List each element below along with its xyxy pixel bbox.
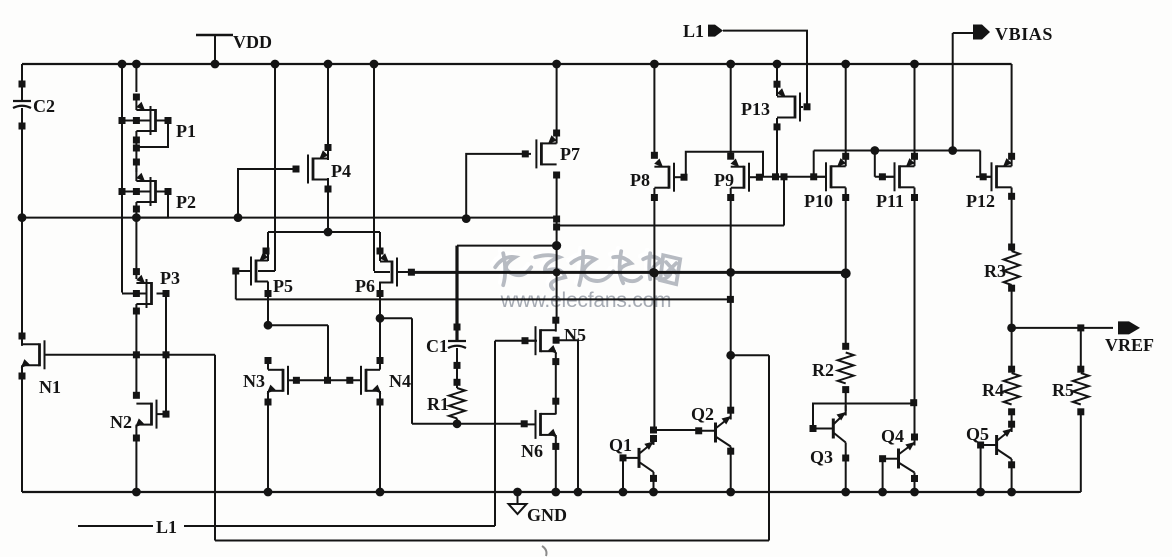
- wire P4 gate bracket: [238, 169, 296, 218]
- wire R5 to rail corner: [1080, 412, 1082, 492]
- wire P6 source corner: [379, 232, 381, 261]
- node Q1 collector dots: [650, 427, 657, 434]
- transistor P9: [743, 166, 746, 189]
- wire P7 source: [556, 64, 558, 144]
- resistor R3: [1008, 244, 1015, 251]
- wire P6 drain down to N4: [379, 318, 381, 369]
- wire P1 drain to P2: [135, 131, 137, 172]
- svg-text:L1: L1: [683, 21, 704, 41]
- svg-text:Q2: Q2: [691, 404, 714, 424]
- svg-text:Q5: Q5: [966, 424, 989, 444]
- svg-text:P12: P12: [966, 191, 995, 211]
- svg-text:VBIAS: VBIAS: [995, 24, 1053, 44]
- svg-text:Q1: Q1: [609, 435, 632, 455]
- wire P5 drain: [267, 282, 269, 326]
- transistor P4: [312, 158, 315, 181]
- transistor P11: [898, 165, 901, 188]
- wire bottom-most line: [215, 540, 769, 542]
- power VDD symbol: [214, 35, 216, 64]
- node VDD rail junction dots: [118, 60, 127, 69]
- svg-text:P8: P8: [630, 170, 650, 190]
- wire Q5 base to ground: [980, 445, 982, 492]
- wire P6 bulk vertical: [373, 64, 375, 271]
- transistor P6: [391, 261, 394, 284]
- transistor P7: [540, 142, 543, 165]
- wire ground bus bottom rail: [22, 491, 1079, 493]
- node P5 gate dot: [232, 268, 239, 275]
- wire Q1 collector to Q2 base: [654, 429, 699, 431]
- transistor Q5: [995, 435, 998, 455]
- node N5 gate dot: [522, 337, 529, 344]
- wire P3 drain chain: [135, 304, 137, 395]
- wire L1 bottom line: [184, 525, 495, 527]
- resistor R2: [842, 343, 849, 350]
- watermark: [492, 248, 677, 286]
- svg-text:R3: R3: [984, 261, 1006, 281]
- wire Q2 emitter to rail: [730, 447, 732, 493]
- wire P8 source: [653, 64, 655, 156]
- svg-text:C1: C1: [426, 336, 448, 356]
- wire P3 gate stub right: [157, 293, 167, 295]
- transistor P3: [150, 282, 153, 305]
- wire rail B riser: [783, 177, 785, 226]
- wire VREF to R4: [1011, 328, 1013, 369]
- transistor Q4: [897, 449, 900, 469]
- power VBIAS symbol: [952, 33, 954, 151]
- transistor P5: [255, 260, 258, 283]
- wire N5 gate riser to L1: [495, 340, 537, 342]
- svg-text:N2: N2: [110, 412, 132, 432]
- transistor P1: [133, 94, 140, 101]
- node P1 gate dots: [119, 117, 126, 124]
- wire N6 source to rail: [555, 435, 557, 492]
- wire N2 source to rail: [135, 425, 137, 492]
- wire R2 bottom to Q3: [845, 390, 847, 411]
- transistor N4: [365, 369, 368, 392]
- wire Q2 base: [699, 430, 716, 432]
- wire P6 drain jog: [380, 317, 412, 319]
- wire P12 source: [1011, 64, 1013, 166]
- wire N5 bulk to ground: [556, 339, 578, 341]
- node P8 gate dot: [681, 174, 688, 181]
- wire Q5 base: [981, 444, 997, 446]
- wire VREF line: [1012, 327, 1113, 329]
- node P2 gate dots: [119, 188, 126, 195]
- transistor P13: [794, 96, 797, 119]
- wire C1 to R1: [456, 348, 458, 388]
- node P3 gate dot: [133, 290, 140, 297]
- wire P4 source: [327, 64, 329, 160]
- wire N1 gate drop: [214, 355, 216, 541]
- svg-text:R4: R4: [982, 380, 1004, 400]
- svg-text:L1: L1: [156, 517, 177, 537]
- wire Q1 base to ground: [622, 458, 624, 492]
- node P6 drain junction: [376, 314, 385, 323]
- stray mark: [542, 546, 547, 556]
- wire R1 bottom: [456, 418, 458, 423]
- transistor N2: [150, 403, 153, 426]
- svg-text:R2: R2: [812, 360, 834, 380]
- wire left vertical upper: [21, 64, 23, 101]
- wire C1 top branch: [457, 245, 557, 247]
- wire N5 source to N6 drain: [555, 352, 557, 414]
- transistor P10: [830, 165, 833, 188]
- transistor P8: [668, 166, 671, 189]
- wire P12 gate drop: [979, 151, 981, 177]
- svg-text:P9: P9: [714, 170, 734, 190]
- transistor N5: [555, 320, 557, 331]
- wire P6 gate long line y=273: [411, 271, 845, 274]
- wire N5 bulk: [553, 337, 560, 344]
- svg-text:GND: GND: [527, 505, 567, 525]
- node rail-A left dot: [18, 213, 27, 222]
- wire Q3 emitter to rail: [845, 443, 847, 493]
- capacitor C1: [448, 340, 466, 342]
- node P6 gate dot: [408, 269, 415, 276]
- wire P9 drain vertical: [730, 188, 732, 410]
- wire P10 drain vertical: [845, 188, 847, 347]
- wire P5/P6 source bus: [268, 231, 380, 233]
- svg-text:Q4: Q4: [881, 426, 904, 446]
- transistor P2: [135, 168, 137, 181]
- svg-text:P5: P5: [273, 276, 293, 296]
- wire L1 to P13 gate: [723, 31, 807, 107]
- wire P13 drain: [776, 118, 778, 177]
- svg-text:P2: P2: [176, 192, 196, 212]
- wire P10 source: [845, 64, 847, 166]
- wire P5 gate drop: [235, 271, 237, 299]
- resistor R1: [449, 388, 465, 418]
- wire N3 source to rail: [267, 391, 269, 492]
- wire left vertical below C2: [21, 108, 23, 346]
- wire gates bus: [814, 150, 981, 152]
- svg-text:P3: P3: [160, 268, 180, 288]
- node Q4 collector dot: [911, 434, 918, 441]
- wire P11 drain vertical: [914, 188, 916, 438]
- node N2 gate dot: [163, 411, 170, 418]
- wire R5 top: [1080, 328, 1082, 369]
- wire P11 gate drop: [874, 151, 876, 177]
- node N5 drain dot: [552, 317, 559, 324]
- svg-text:P10: P10: [804, 191, 833, 211]
- wire Q1 emitter to rail: [653, 472, 655, 492]
- wire P1 bulk loop: [165, 117, 172, 124]
- wire Q3 base bracket: [813, 404, 914, 429]
- node rail A dots: [132, 213, 141, 222]
- svg-text:R1: R1: [427, 394, 449, 414]
- wire rail A (P2 drain bus): [22, 217, 557, 219]
- wire P5 drain to N3 gate riser: [268, 324, 328, 326]
- wire P12 drain: [1011, 188, 1013, 252]
- wire VDD top rail: [22, 63, 1012, 65]
- wire Q4 emitter to rail: [914, 473, 916, 493]
- wire gate line A x=122: [121, 64, 123, 293]
- wire rail B: [557, 225, 784, 227]
- svg-text:P4: P4: [331, 161, 351, 181]
- transistor N3: [282, 369, 285, 392]
- wire P9 source: [730, 64, 732, 156]
- wire N3-N4 gate line: [296, 379, 361, 381]
- wire R4 to Q5: [1011, 412, 1013, 429]
- wire R1 bottom line to N6 gate: [412, 423, 524, 425]
- wire P5 bulk vertical: [274, 64, 276, 271]
- svg-text:N1: N1: [39, 377, 61, 397]
- wire P4 drain: [327, 178, 329, 232]
- node P9 gate dot: [756, 174, 763, 181]
- svg-text:N4: N4: [389, 371, 411, 391]
- wire L1 bottom stub: [78, 525, 153, 527]
- wire P8 drain vertical: [653, 188, 655, 430]
- resistor R4: [1004, 373, 1020, 404]
- transistor P12: [995, 165, 998, 188]
- wire P2 drain to rail A: [135, 202, 137, 218]
- wire Q5 emitter to rail: [1011, 459, 1013, 492]
- svg-text:N5: N5: [564, 325, 586, 345]
- wire P5 gate long line y=299: [236, 298, 731, 300]
- wire Q4 base: [883, 458, 899, 460]
- transistor Q2: [714, 423, 717, 443]
- wire P2 bulk loop: [165, 188, 172, 195]
- wire Q3 base: [813, 428, 833, 430]
- node P7 drain dot: [553, 172, 560, 179]
- svg-text:Q3: Q3: [810, 447, 833, 467]
- svg-text:P1: P1: [176, 121, 196, 141]
- transistor N1: [38, 343, 41, 366]
- wire N3 drain: [267, 361, 269, 370]
- wire P9-P10 gate line: [759, 176, 826, 178]
- transistor Q3: [832, 419, 835, 439]
- capacitor C2: [13, 100, 31, 102]
- node Q2 collector dot: [727, 407, 734, 414]
- svg-text:www.elecfans.com: www.elecfans.com: [500, 289, 672, 312]
- wire P3/N2 gate vertical: [165, 294, 167, 415]
- svg-text:N3: N3: [243, 371, 265, 391]
- svg-text:R5: R5: [1052, 380, 1074, 400]
- wire P8 gate bracket: [686, 152, 763, 178]
- output VREF flag: [1118, 321, 1140, 334]
- transistor Q1: [638, 448, 641, 468]
- wire Q1 base: [623, 457, 639, 459]
- svg-text:VDD: VDD: [233, 32, 272, 52]
- svg-text:P11: P11: [876, 191, 904, 211]
- resistor R5: [1073, 373, 1089, 404]
- wire P13 source: [776, 64, 778, 96]
- wire P2 to P3 source: [135, 218, 137, 279]
- wire Q4 base to ground: [882, 459, 884, 492]
- wire R3 to VREF node: [1011, 288, 1013, 328]
- wire P7 gate bracket: [466, 154, 531, 219]
- svg-text:P6: P6: [355, 276, 375, 296]
- wire P11 source: [914, 64, 916, 166]
- ground GND symbol: [513, 488, 522, 497]
- svg-text:P7: P7: [560, 144, 580, 164]
- node C1 top dot: [454, 324, 461, 331]
- svg-text:P13: P13: [741, 99, 770, 119]
- wire left vertical lower: [21, 365, 23, 492]
- wire P7 drain vertical: [556, 176, 558, 320]
- wire P6 drain: [379, 282, 381, 319]
- wire P1 source stub: [135, 64, 137, 92]
- wire N1 gate line: [45, 354, 216, 356]
- wire P5 source corner: [267, 232, 269, 261]
- wire N4 source to rail: [379, 391, 381, 492]
- svg-text:N6: N6: [521, 441, 543, 461]
- svg-text:VREF: VREF: [1105, 335, 1154, 355]
- svg-text:C2: C2: [33, 96, 55, 116]
- transistor N6: [539, 413, 542, 436]
